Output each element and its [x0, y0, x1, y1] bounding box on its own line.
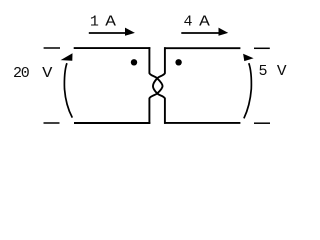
wire: primary bottom conductor — [74, 122, 150, 124]
current arrow I1 head — [125, 28, 135, 36]
voltage arrow v2 head — [243, 54, 254, 61]
svg-text:A: A — [199, 14, 210, 31]
polarity dot: primary — [131, 59, 137, 65]
voltage arrow v1 head — [61, 53, 73, 61]
terminal lead: primary bottom (dash) — [44, 122, 60, 124]
wire: primary top conductor — [74, 47, 151, 49]
voltage arrow v2 curve (5 V) — [244, 63, 251, 118]
current arrow I2 shaft — [181, 32, 219, 34]
terminal lead: primary top (dash) — [44, 47, 60, 49]
current arrow I1 shaft — [89, 32, 126, 34]
svg-text:4: 4 — [184, 14, 193, 31]
svg-text:5: 5 — [258, 63, 267, 80]
svg-text:V: V — [42, 65, 52, 82]
voltage arrow v1 curve (20 V) — [64, 63, 72, 117]
polarity dot: secondary — [175, 59, 181, 65]
svg-text:0: 0 — [21, 65, 30, 82]
transformer T secondary winding (right, with twist) — [153, 47, 165, 124]
svg-text:A: A — [105, 14, 116, 31]
svg-text:V: V — [277, 63, 287, 80]
wire: secondary top conductor — [164, 47, 240, 49]
terminal lead: secondary bottom (dash) — [254, 122, 270, 124]
current arrow I2 head — [219, 28, 229, 36]
terminal lead: secondary top (dash) — [254, 47, 270, 49]
transformer T primary winding (left, with twist) — [149, 47, 162, 124]
wire: secondary bottom conductor — [164, 122, 240, 124]
svg-text:1: 1 — [90, 14, 99, 31]
